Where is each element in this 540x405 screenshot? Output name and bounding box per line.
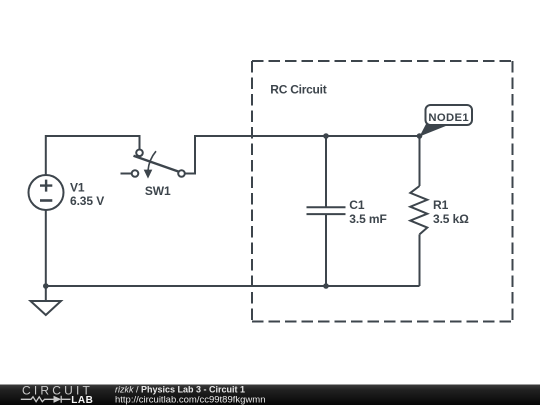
resistor R1: [410, 136, 427, 286]
svg-text:R1: R1: [433, 198, 449, 212]
svg-text:SW1: SW1: [145, 184, 171, 198]
svg-text:LAB: LAB: [71, 395, 93, 405]
label R1 value: [433, 198, 469, 226]
node NODE1 flag: [420, 105, 473, 137]
label V1 value: [70, 180, 104, 208]
svg-text:C1: C1: [349, 198, 365, 212]
wire top right (SW1 to NODE1): [185, 136, 420, 174]
footer bar: [0, 385, 540, 405]
svg-text:RC Circuit: RC Circuit: [270, 82, 326, 96]
CircuitLab logo: [21, 383, 94, 405]
svg-text:6.35 V: 6.35 V: [70, 194, 104, 208]
ground: [31, 286, 62, 315]
junction at NODE1: [417, 133, 423, 139]
svg-text:NODE1: NODE1: [428, 112, 469, 124]
svg-text:3.5 mF: 3.5 mF: [349, 212, 386, 226]
svg-text:http://circuitlab.com/cc99t89f: http://circuitlab.com/cc99t89fkgwmn: [115, 394, 265, 405]
voltage source V1: [29, 175, 64, 210]
wire top left (V1 to SW1): [46, 136, 140, 175]
junction at C1 bottom: [323, 283, 329, 289]
label C1 value: [349, 198, 386, 226]
junction at C1 top: [323, 133, 329, 139]
svg-text:V1: V1: [70, 180, 85, 194]
dashed box RC Circuit: [252, 61, 513, 322]
svg-text:3.5 kΩ: 3.5 kΩ: [433, 212, 469, 226]
svg-text:rizkk / Physics Lab 3 - Circui: rizkk / Physics Lab 3 - Circuit 1: [115, 385, 245, 395]
wire bottom (ground rail): [46, 211, 420, 287]
capacitor C1: [307, 136, 346, 286]
junction at ground: [43, 283, 49, 289]
switch SW1: [121, 150, 185, 179]
